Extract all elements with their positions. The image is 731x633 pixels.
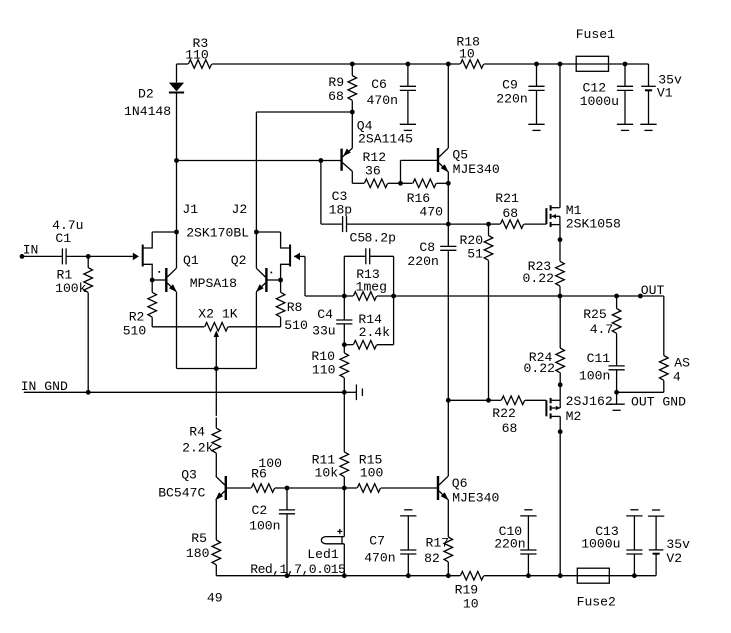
wire J2 drain column [255,112,257,232]
diode D2 [169,83,184,92]
wire C7 top [407,516,409,550]
wire C1 to node [66,255,88,257]
svg-text:OUT: OUT [641,283,665,298]
svg-text:36: 36 [365,164,381,179]
ground C13 [626,515,642,517]
svg-text:100k: 100k [55,281,87,296]
wire J1 drain column [176,161,178,233]
wire Q2 collector up [255,232,257,268]
svg-text:10k: 10k [315,465,339,480]
wire rail to V1 [648,64,650,86]
wire C4 top [343,296,345,320]
ground C12 [617,123,633,125]
wire bottom rail right [609,575,656,577]
wire Q1 base lead [152,279,166,281]
svg-text:M1: M1 [566,203,582,218]
svg-text:R25: R25 [583,307,607,322]
svg-text:68: 68 [328,89,344,104]
transistor Q4 [340,149,342,171]
svg-text:110: 110 [185,47,209,62]
wire emitter row [177,368,257,370]
wire pot row right [228,326,280,328]
ground mid tick [344,391,356,393]
resistor R23 [556,261,565,286]
wire C13 bottom [633,554,635,576]
ground V1 [640,123,656,125]
node dot C4 top [342,294,347,299]
wire C12 to ground [624,90,626,124]
wire J2 gate leg down [304,256,306,296]
transistor Q2 [265,268,267,292]
svg-text:35v: 35v [666,537,690,552]
svg-text:R21: R21 [495,191,519,206]
resistor R17 [444,537,453,562]
node dot R13 right [391,294,396,299]
svg-text:C6: C6 [371,77,387,92]
wire R22 to M2 gate [525,399,546,401]
capacitor C2 [279,509,295,511]
svg-text:Q6: Q6 [452,476,468,491]
node dot OUT GND [614,390,619,395]
led Led1 [321,537,344,544]
resistor R22 [501,396,524,405]
wire Q5 base link right [401,159,438,161]
node dot Q1 base [150,278,155,283]
svg-text:IN: IN [23,242,39,257]
wire R24 top [559,296,561,348]
wire Q5 emitter down [447,172,449,184]
tiny dot Q2 [271,272,273,274]
svg-text:C1: C1 [55,231,71,246]
wire top rail R18 to Fuse1 [484,63,576,65]
resistor R21 [500,220,523,229]
ground C7 [400,515,416,517]
node A J1 drain dot [174,230,179,235]
svg-text:V1: V1 [657,85,673,100]
svg-text:C4: C4 [317,307,333,322]
node dot C2 rail [285,573,290,578]
svg-text:Red,1,7,0.015: Red,1,7,0.015 [250,562,346,577]
wire R1 to gnd [87,293,89,393]
node dot Q2 base [278,278,283,283]
svg-text:R9: R9 [328,75,344,90]
svg-text:18p: 18p [329,203,353,218]
wire C10 top [527,516,529,550]
svg-text:OUT GND: OUT GND [631,395,686,410]
svg-text:1N4148: 1N4148 [124,104,171,119]
svg-text:Q1: Q1 [183,253,199,268]
svg-text:100n: 100n [249,519,280,534]
wire C5 left leg [343,256,345,296]
svg-text:470n: 470n [364,551,395,566]
node dot R20 top [486,222,491,227]
fuse Fuse1 [576,56,608,71]
svg-text:4.7: 4.7 [590,322,614,337]
wire R9 to node [351,101,353,113]
svg-text:82: 82 [424,551,440,566]
wire Q1 collector up [176,232,178,268]
wire M2 source down [559,416,561,431]
svg-text:IN GND: IN GND [21,379,68,394]
wire Q4 emitter up [351,112,353,148]
node dot rail R9 [350,62,355,67]
wire out row mid [394,295,560,297]
svg-text:Led1: Led1 [307,547,339,562]
wire C10 bottom [527,554,529,576]
wire C11 bottom [616,370,618,393]
resistor R20 [484,236,493,261]
transistor Q5 [437,148,439,172]
wire R11 top [343,392,345,452]
svg-text:100: 100 [360,465,384,480]
svg-text:68: 68 [502,421,518,436]
svg-text:C12: C12 [583,80,607,95]
wire C8 down [447,250,449,400]
wire M1 source down [559,225,561,240]
resistor R15 [357,484,380,493]
node dot C13 rail [632,573,637,578]
wire AS top [663,296,665,356]
svg-text:2SA1145: 2SA1145 [358,132,413,147]
node dot input [86,254,91,259]
svg-text:X2 1K: X2 1K [198,307,237,322]
wire out row left [305,295,344,297]
svg-text:C11: C11 [587,351,611,366]
wire J2 gate right [294,255,305,257]
node dot R10 gnd [342,390,347,395]
wire rail to C9 [536,64,538,86]
capacitor C11 [609,365,625,367]
svg-text:R20: R20 [460,233,484,248]
resistor R12 [364,179,387,188]
wire node row D2 to Q4 base [177,160,341,162]
wire Q4 to R12 [352,182,364,184]
svg-text:Q5: Q5 [452,147,468,162]
resistor AS [660,356,669,381]
svg-text:2.4k: 2.4k [359,325,391,340]
svg-text:68: 68 [502,206,518,221]
wire J1 drain to dot [152,231,176,233]
wire M1 to R23 [559,240,561,262]
transistor M2 [545,400,547,416]
wire led top [343,488,345,537]
node dot R1 bottom [86,390,91,395]
wire V2 bottom [655,554,657,576]
svg-text:1meg: 1meg [356,280,387,295]
node dot R12 R16 [398,181,403,186]
svg-text:1000u: 1000u [580,94,619,109]
wire Q5 base link up [400,160,402,183]
wire led bottom [343,544,345,576]
svg-text:C7: C7 [369,533,385,548]
node dot rail C6 [406,62,411,67]
transistor Q6 [437,476,439,500]
wire pot row left [152,326,204,328]
wire R15 left [344,487,357,489]
capacitor C3 [342,216,344,232]
wire R25 top [616,296,618,309]
svg-text:2SK1058: 2SK1058 [566,217,621,232]
svg-text:MJE340: MJE340 [453,162,500,177]
svg-text:R6: R6 [251,466,267,481]
svg-text:100n: 100n [579,369,610,384]
svg-text:470n: 470n [367,93,398,108]
capacitor C8 [440,245,456,247]
wire R21 to M1 gate [524,223,546,225]
wire C2 top [286,488,288,510]
wire C4 to R10 [343,345,345,353]
svg-text:R12: R12 [363,150,387,165]
svg-text:R2: R2 [129,310,145,325]
node dot led rail [342,573,347,578]
node dot C10 rail [526,573,531,578]
wire R12 to node [388,182,401,184]
tiny dot Q1 [158,271,160,273]
resistor R16 [413,179,436,188]
node dot R9 bottom [350,110,355,115]
wire R9 row left [256,111,352,113]
capacitor C7 [400,549,416,551]
wire to R21 [489,223,501,225]
resistor R9 [348,76,357,101]
wire Q3 emitter down [215,500,217,540]
wire Q4 collector down [351,171,353,183]
node dot M1 source [558,237,563,242]
wire R5 to rail [215,565,217,576]
svg-text:C8: C8 [419,240,435,255]
resistor R14 [353,340,376,349]
fuse Fuse2 [577,568,609,583]
node dot Q5 emitter [446,181,451,186]
svg-text:Q3: Q3 [181,467,197,482]
svg-text:2.2k: 2.2k [182,440,214,455]
svg-text:33u: 33u [312,324,336,339]
node dot OUT [638,294,643,299]
node dot C7 rail [406,573,411,578]
svg-text:220n: 220n [407,254,438,269]
svg-text:4: 4 [673,370,681,385]
svg-text:V2: V2 [666,551,682,566]
wire D2 to node row [176,93,178,161]
node dot R11 bottom [342,486,347,491]
capacitor C4 [336,319,352,321]
wire Q6 emitter down [447,500,449,538]
pot wiper arrow [214,330,219,337]
wire gnd stub [616,392,618,404]
wire AS bottom [663,381,665,393]
ground C6 [400,123,416,125]
node dot R25 top [614,294,619,299]
wire R2 to pot row [151,317,153,327]
capacitor C6 [400,85,416,87]
svg-text:R17: R17 [426,536,450,551]
wire V1 to ground [648,90,650,124]
svg-text:51: 51 [467,247,483,262]
transistor Q1 [165,268,167,292]
wire IN to C1 [22,255,62,257]
node dot R17 rail [446,573,451,578]
svg-text:Fuse2: Fuse2 [577,595,616,610]
node dot M2 drain [558,382,563,387]
wire Q5 emitter to C8 [447,183,449,246]
svg-text:1000u: 1000u [581,536,620,551]
wire Q2 base to R8 [280,280,282,292]
ground C10 [520,515,536,517]
svg-text:180: 180 [186,546,210,561]
svg-text:49: 49 [207,590,223,605]
wire R6 to C2 node [275,487,287,489]
wire C3 tap down [320,161,322,225]
svg-text:J2: J2 [232,202,248,217]
wire Q6 collector up [447,400,449,476]
node dot R23 R24 [558,294,563,299]
wire node to R16 [401,182,413,184]
wire R10 to gnd row [343,378,345,392]
wire J2 drain to dot [256,231,280,233]
svg-text:J1: J1 [182,202,198,217]
node IN terminal [20,254,25,259]
wire R22 row left [448,399,488,401]
wire Q5 collector up [447,64,449,148]
node dot M2 source [558,429,563,434]
ground C9 [528,123,544,125]
resistor R25 [612,309,621,334]
svg-text:C9: C9 [502,77,518,92]
wire M2 to rail [559,432,561,576]
node dot emitter join [214,366,219,371]
wire rail to R9 [351,64,353,76]
wire top rail Fuse1 to V1 [609,63,649,65]
wire R23 to out row [559,286,561,296]
wire Q2 emitter down [255,292,257,369]
svg-text:R19: R19 [455,582,479,597]
jfet J1 [142,245,144,267]
resistor R10 [340,353,349,378]
svg-text:510: 510 [284,318,308,333]
wire rail to C12 [624,64,626,86]
wire C4 bottom [343,324,345,345]
svg-text:510: 510 [123,324,147,339]
node dot R20 bottom [486,398,491,403]
svg-text:BC547C: BC547C [158,485,205,500]
resistor R3 [188,60,211,69]
capacitor C9 [528,85,544,87]
node dot D2 row [174,158,179,163]
ground OUT GND [608,403,624,405]
svg-text:0.22: 0.22 [523,271,554,286]
wire R20 top [488,224,490,235]
wire R20 down [488,261,490,401]
svg-text:MJE340: MJE340 [452,491,499,506]
wire bottom rail left [216,575,460,577]
svg-text:D2: D2 [138,87,154,102]
wire R4 to Q3 collector [215,453,217,476]
resistor R2 [148,292,157,317]
ground V2 [648,515,664,517]
svg-text:C5: C5 [350,230,366,245]
node dot C3 tap [319,158,324,163]
capacitor C5 [365,248,367,264]
battery V1 [641,85,656,87]
svg-text:10: 10 [463,597,479,612]
svg-text:M2: M2 [566,409,582,424]
resistor R18 [460,60,483,69]
node dot C2 top [285,486,290,491]
resistor R8 [276,292,285,317]
wire C13 top [633,516,635,550]
svg-text:470: 470 [419,204,443,219]
wire to OUT terminal [617,295,664,297]
wire R17 to rail [447,562,449,576]
resistor R4 [212,428,221,453]
svg-text:Fuse1: Fuse1 [576,27,615,42]
wire node to C3 [321,223,343,225]
wire C6 to ground [407,90,409,124]
wire R25 to C11 [616,334,618,366]
svg-text:110: 110 [312,362,336,377]
node dot C3 C8 [446,222,451,227]
wire R13 right [377,295,394,297]
wire to R14 [344,344,353,346]
wire R16 to Q5 emitter [437,182,449,184]
transistor Q3 [225,476,227,500]
wire R14 right up [377,344,394,346]
wire M1 drain up [559,64,561,208]
wire top rail left segment [177,63,189,65]
wire C2 bottom [286,514,288,576]
svg-text:2SK170BL: 2SK170BL [186,225,249,240]
wire node to J1 gate [88,255,133,257]
wire to R13 [344,295,353,297]
wire R3 left down to D2 [176,64,178,83]
resistor R19 [460,571,483,580]
svg-text:10: 10 [459,46,475,61]
wire C2 node to R11 node [287,487,344,489]
wire R11 bottom [343,477,345,488]
svg-text:AS: AS [674,356,690,371]
wire R8 to pot row [280,317,282,327]
capacitor C1 [61,248,63,264]
resistor R1 [84,268,93,293]
svg-text:2SJ162: 2SJ162 [566,394,613,409]
wire C5 right leg [370,255,394,257]
wire R24 bottom [559,373,561,385]
node dot rail Q5 [446,62,451,67]
node dot rail C9 [534,62,539,67]
potentiometer X2 [205,323,228,332]
wire to R20 node [448,223,488,225]
wire Q2 base lead [267,279,281,281]
resistor R6 [251,484,274,493]
capacitor C12 [617,85,633,87]
jfet J2 [289,245,291,267]
wire C7 bottom [407,554,409,576]
svg-text:220n: 220n [496,91,527,106]
capacitor C10 [520,549,536,551]
capacitor C13 [626,549,642,551]
resistor R5 [212,540,221,565]
battery V2 [649,549,664,551]
transistor M1 [545,208,547,224]
wire V2 top [655,516,657,550]
node dot Q6 collector [446,398,451,403]
wire R15 to Q6 base [381,487,437,489]
resistor R11 [340,452,349,477]
svg-text:C2: C2 [252,503,268,518]
svg-text:R22: R22 [492,406,516,421]
wire C9 to ground [536,90,538,124]
svg-text:Q2: Q2 [231,253,247,268]
